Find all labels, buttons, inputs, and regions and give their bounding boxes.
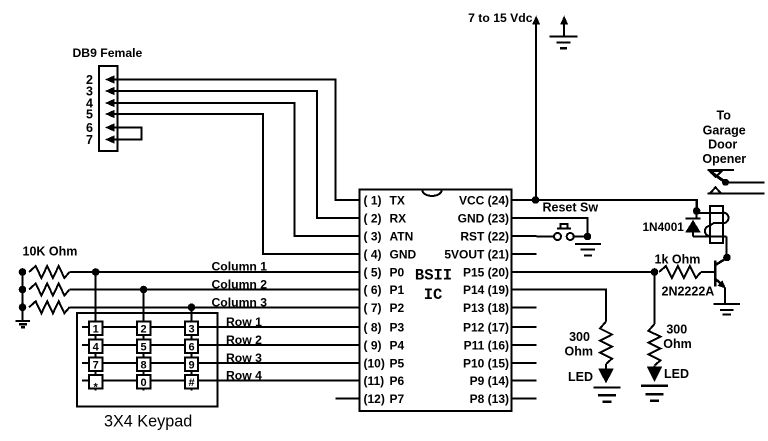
svg-text:2N2222A: 2N2222A: [662, 285, 715, 299]
svg-text:P8 (13): P8 (13): [470, 392, 509, 406]
svg-text:5VOUT (21): 5VOUT (21): [444, 248, 509, 262]
svg-text:0: 0: [141, 377, 147, 389]
svg-text:RX: RX: [390, 212, 407, 226]
svg-text:300: 300: [569, 330, 590, 344]
svg-text:3: 3: [188, 324, 194, 336]
svg-text:GND: GND: [390, 248, 417, 262]
svg-text:P9 (14): P9 (14): [470, 374, 509, 388]
svg-text:P6: P6: [390, 374, 405, 388]
svg-text:1N4001: 1N4001: [643, 220, 685, 234]
svg-text:Ohm: Ohm: [663, 337, 691, 351]
svg-text:P13 (18): P13 (18): [463, 301, 509, 315]
svg-text:IC: IC: [424, 286, 443, 304]
svg-text:#: #: [188, 377, 194, 389]
svg-text:Reset Sw: Reset Sw: [543, 201, 599, 215]
svg-text:8: 8: [141, 360, 147, 372]
svg-text:P10 (15): P10 (15): [463, 357, 509, 371]
svg-text:ATN: ATN: [390, 230, 414, 244]
svg-text:(10): (10): [364, 357, 385, 371]
svg-text:5: 5: [141, 341, 147, 353]
svg-text:1k Ohm: 1k Ohm: [655, 252, 701, 266]
svg-text:Column 2: Column 2: [212, 278, 268, 292]
svg-text:(11): (11): [364, 374, 385, 388]
svg-text:5: 5: [86, 108, 93, 122]
svg-text:6: 6: [188, 341, 194, 353]
svg-text:*: *: [94, 381, 99, 393]
svg-text:( 3): ( 3): [364, 230, 382, 244]
svg-text:( 8): ( 8): [364, 321, 382, 335]
svg-text:GND (23): GND (23): [458, 212, 509, 226]
svg-text:P1: P1: [390, 283, 405, 297]
svg-text:( 5): ( 5): [364, 266, 382, 280]
svg-text:( 9): ( 9): [364, 338, 382, 352]
svg-text:9: 9: [188, 360, 194, 372]
svg-text:Door: Door: [708, 137, 737, 151]
svg-text:LED: LED: [664, 367, 689, 381]
svg-text:P15 (20): P15 (20): [463, 266, 509, 280]
svg-text:P7: P7: [390, 392, 405, 406]
svg-text:P2: P2: [390, 301, 405, 315]
svg-text:Opener: Opener: [702, 152, 746, 166]
svg-text:P11 (16): P11 (16): [464, 338, 509, 352]
svg-text:Column 3: Column 3: [212, 295, 268, 309]
svg-text:3X4 Keypad: 3X4 Keypad: [104, 413, 192, 431]
svg-text:P5: P5: [390, 357, 405, 371]
svg-text:BSII: BSII: [415, 266, 452, 284]
svg-text:( 6): ( 6): [364, 283, 382, 297]
svg-text:( 1): ( 1): [364, 194, 382, 208]
svg-text:P14 (19): P14 (19): [463, 283, 509, 297]
svg-text:P12 (17): P12 (17): [463, 321, 509, 335]
svg-text:P0: P0: [390, 266, 405, 280]
svg-text:RST (22): RST (22): [460, 230, 509, 244]
svg-text:To: To: [717, 109, 732, 123]
svg-text:TX: TX: [390, 194, 405, 208]
svg-text:7 to 15 Vdc: 7 to 15 Vdc: [468, 11, 533, 25]
svg-text:P3: P3: [390, 321, 405, 335]
svg-text:( 7): ( 7): [364, 301, 382, 315]
svg-text:300: 300: [666, 322, 687, 336]
svg-text:7: 7: [93, 360, 99, 372]
svg-text:P4: P4: [390, 338, 405, 352]
svg-text:Column 1: Column 1: [212, 259, 268, 273]
svg-text:4: 4: [93, 341, 100, 353]
svg-text:7: 7: [86, 133, 93, 147]
svg-text:( 2): ( 2): [364, 212, 382, 226]
svg-text:(12): (12): [364, 392, 385, 406]
svg-text:Garage: Garage: [703, 124, 746, 138]
svg-text:Ohm: Ohm: [565, 345, 593, 359]
svg-text:1: 1: [93, 324, 99, 336]
svg-text:LED: LED: [568, 370, 593, 384]
svg-text:VCC (24): VCC (24): [459, 194, 509, 208]
svg-text:DB9 Female: DB9 Female: [73, 46, 143, 60]
svg-text:( 4): ( 4): [364, 248, 382, 262]
svg-text:10K Ohm: 10K Ohm: [23, 245, 78, 259]
svg-text:2: 2: [141, 324, 147, 336]
